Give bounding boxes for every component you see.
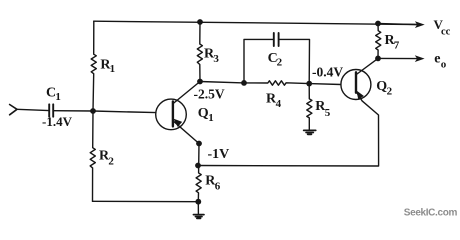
- svg-text:2: 2: [277, 57, 283, 69]
- svg-text:e: e: [434, 52, 440, 67]
- svg-text:6: 6: [215, 181, 221, 193]
- svg-text:3: 3: [213, 53, 219, 65]
- svg-text:-1V: -1V: [208, 147, 230, 162]
- svg-text:1: 1: [208, 112, 214, 124]
- svg-text:-0.4V: -0.4V: [312, 65, 343, 80]
- svg-text:SeekIC.com: SeekIC.com: [404, 207, 458, 218]
- svg-text:4: 4: [276, 98, 282, 110]
- svg-text:o: o: [441, 59, 447, 71]
- svg-text:5: 5: [325, 107, 331, 119]
- svg-text:2: 2: [387, 86, 393, 98]
- svg-text:cc: cc: [441, 26, 451, 37]
- svg-text:Q: Q: [198, 106, 209, 121]
- svg-text:-2.5V: -2.5V: [194, 87, 225, 102]
- svg-text:7: 7: [394, 40, 400, 52]
- svg-text:-1.4V: -1.4V: [42, 114, 73, 129]
- svg-text:1: 1: [110, 63, 116, 75]
- svg-text:2: 2: [108, 156, 114, 168]
- svg-text:1: 1: [55, 91, 61, 103]
